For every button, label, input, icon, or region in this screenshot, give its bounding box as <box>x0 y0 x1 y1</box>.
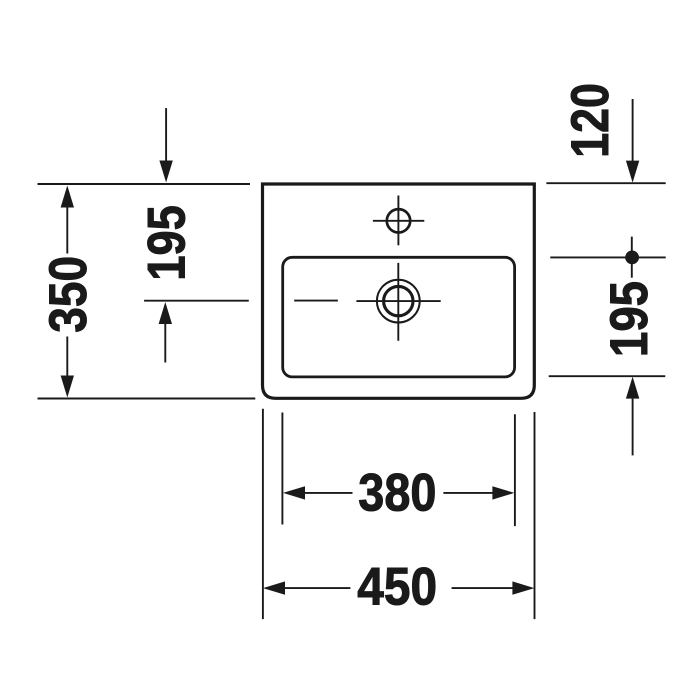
fixing point tick <box>631 237 633 278</box>
extension line 450 right <box>534 412 536 619</box>
arrow right for 450 <box>452 581 535 594</box>
fixing point dot <box>625 251 639 265</box>
left dimension line at drain center <box>144 300 249 302</box>
right dimension line at inner rim front <box>549 375 666 377</box>
arrow left for 450 <box>263 581 350 594</box>
right dimension line at rear edge <box>546 182 665 184</box>
faucet hole crosshair horizontal <box>373 220 424 222</box>
arrow left for 380 <box>283 486 353 499</box>
arrow up for 350 top <box>61 186 74 254</box>
arrow up for 195 right <box>626 377 639 456</box>
drain crosshair vertical <box>397 263 399 341</box>
arrow up for 195 left bottom <box>159 302 172 363</box>
svg-text:120: 120 <box>561 83 620 158</box>
right dimension line at inner rim rear <box>550 256 665 258</box>
faucet hole circle <box>387 209 410 232</box>
drain centerline dash segment <box>294 300 338 302</box>
extension line 450 left <box>262 409 264 619</box>
svg-text:195: 195 <box>137 205 196 281</box>
extension line 380 right <box>514 414 516 526</box>
left dimension line at rear edge <box>38 183 251 185</box>
arrow right for 380 <box>443 486 514 499</box>
drain inner circle <box>384 286 413 315</box>
extension line 380 left <box>281 413 283 525</box>
svg-text:350: 350 <box>39 256 98 333</box>
svg-text:450: 450 <box>357 558 437 617</box>
left dimension line at front edge <box>38 398 256 400</box>
arrow down for 195 left top <box>159 108 172 182</box>
arrow down for 120 <box>626 99 639 183</box>
svg-text:380: 380 <box>358 464 436 523</box>
arrow down for 350 bottom <box>61 337 74 398</box>
drain crosshair horizontal <box>356 300 440 302</box>
drain outer circle <box>377 280 420 323</box>
basin inner rim (rounded rect) <box>283 257 515 377</box>
faucet hole crosshair vertical <box>397 196 399 246</box>
basin outer outline (top view) <box>263 184 535 398</box>
svg-text:195: 195 <box>600 281 659 357</box>
